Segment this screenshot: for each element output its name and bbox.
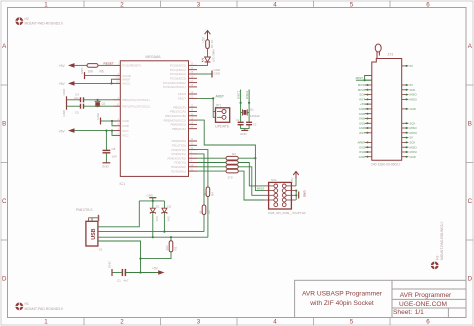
svg-text:MOSI: MOSI [410, 131, 417, 135]
svg-text:MOUNT-PAD-ROUND3.0: MOUNT-PAD-ROUND3.0 [25, 307, 63, 311]
svg-text:5V: 5V [410, 83, 414, 87]
wire caps to gnd [241, 125, 250, 131]
svg-text:5V: 5V [410, 136, 414, 140]
supply +5V arrow (SV1) [290, 172, 299, 186]
svg-text:MOSI: MOSI [410, 98, 417, 102]
svg-text:2: 2 [120, 318, 124, 325]
supply +5V arrow up (LED) [202, 31, 211, 43]
wire USB p1 GND up to zener rail [98, 201, 139, 227]
frame row letters right [468, 43, 473, 283]
svg-text:SCK: SCK [410, 121, 416, 125]
svg-text:PD7(AIN1): PD7(AIN1) [171, 169, 186, 173]
svg-text:OSC2: OSC2 [245, 90, 249, 99]
frame column ticks top [84, 1, 390, 8]
wire PD4 to R3a [197, 157, 226, 159]
svg-text:GND: GND [359, 112, 365, 116]
svg-text:OSC: OSC [359, 145, 365, 149]
svg-text:68: 68 [203, 192, 207, 196]
ZIF left net labels [358, 83, 366, 159]
svg-text:R2: R2 [174, 246, 178, 250]
svg-text:GND: GND [122, 124, 130, 128]
ZIF left pin stubs [365, 76, 372, 157]
capacitor C3 [246, 122, 257, 126]
junction VCC pins [111, 130, 113, 132]
svg-text:C3: C3 [253, 123, 257, 127]
svg-text:4: 4 [273, 318, 277, 325]
svg-text:H3: H3 [436, 256, 440, 260]
crystal Q2 [95, 100, 106, 106]
ground symbol (C1) [108, 261, 113, 277]
svg-text:C5: C5 [75, 111, 79, 115]
junction SV1 gnd [295, 190, 297, 192]
resistor R3d [226, 169, 238, 173]
svg-text:Q2: Q2 [102, 102, 106, 106]
svg-text:6: 6 [426, 318, 430, 325]
svg-text:4u7: 4u7 [124, 279, 129, 283]
svg-text:5V: 5V [410, 64, 414, 68]
svg-text:C1: C1 [117, 279, 121, 283]
svg-text:2K2: 2K2 [165, 245, 169, 251]
svg-text:C4: C4 [75, 93, 79, 97]
wire OSC2 [248, 90, 250, 123]
wire R4 to D+ line [207, 197, 209, 238]
wire ARST to JP1 [213, 98, 215, 117]
svg-text:GND: GND [62, 88, 66, 96]
IC IC1 right pin stubs [189, 65, 198, 171]
wire PD3 to R5 [197, 154, 204, 205]
svg-text:C: C [468, 198, 473, 205]
wire C5 to XTAL2 [84, 105, 114, 107]
zener diode D2 [162, 201, 172, 232]
ZIF right net dots [406, 65, 408, 158]
svg-text:GND: GND [62, 109, 66, 117]
svg-text:2: 2 [120, 2, 124, 9]
ground symbol (IC GND pins) [96, 112, 101, 124]
svg-text:R6: R6 [100, 70, 104, 74]
supply +5V arrow (reset pullup) [59, 63, 75, 68]
wire C1 to gnd [113, 272, 123, 274]
svg-text:VCC: VCC [122, 134, 129, 138]
svg-text:3V6: 3V6 [167, 216, 171, 222]
ground symbol (XTAL1 cap) [62, 88, 67, 103]
ground symbol (XTAL2 cap) [62, 103, 67, 117]
junction ARST [212, 97, 214, 99]
wire OSC1 [240, 90, 242, 123]
svg-text:RST: RST [359, 131, 365, 135]
svg-text:22p: 22p [74, 96, 79, 100]
wire pill2 out to SV1 pin1 [238, 163, 264, 186]
svg-text:5: 5 [350, 2, 354, 9]
mount pad H2 (top left) [16, 17, 63, 26]
junction AREF/AVCC [110, 82, 112, 84]
svg-text:5: 5 [350, 318, 354, 325]
capacitor C4 [74, 93, 84, 103]
svg-text:X1: X1 [99, 248, 103, 252]
svg-text:AVR Programmer: AVR Programmer [400, 292, 452, 299]
svg-text:1: 1 [44, 2, 48, 9]
svg-text:B: B [2, 121, 6, 128]
junction R2 on D+ [170, 236, 172, 238]
capacitor C8 [103, 147, 117, 159]
wire gnd to C5 [67, 105, 81, 107]
svg-text:GND: GND [359, 155, 365, 159]
wire AGND [85, 75, 114, 77]
svg-text:R1 1K: R1 1K [210, 40, 214, 48]
junction VCC to C8 [105, 130, 107, 132]
ZIF socket ZX1 lever [375, 44, 381, 59]
svg-text:GND: GND [122, 119, 130, 123]
ground symbol (right of IC) [212, 68, 221, 78]
svg-text:12MHZ: 12MHZ [250, 114, 260, 118]
resistor R4 [203, 187, 215, 197]
title block [295, 280, 466, 317]
ground symbol (AGND) [80, 67, 85, 79]
svg-text:PGB_SPI_0909__5X2PTH2: PGB_SPI_0909__5X2PTH2 [268, 211, 306, 215]
wire PB3 MOSI to header [197, 120, 255, 158]
svg-text:R4: R4 [211, 192, 215, 196]
svg-text:D: D [468, 276, 473, 283]
svg-text:MISO: MISO [410, 93, 418, 97]
svg-text:D: D [2, 276, 7, 283]
zener gnd rail [139, 200, 164, 202]
zener diode D1 [150, 201, 160, 237]
USB connector X1 [76, 208, 103, 252]
svg-text:ADC7: ADC7 [178, 97, 186, 101]
svg-text:PN61729-S: PN61729-S [76, 208, 92, 212]
svg-text:PC5(ADC5/SCL): PC5(ADC5/SCL) [163, 85, 186, 89]
junction OSC1 [240, 102, 242, 104]
wire pill1 out to SV1 pin2 [238, 158, 264, 190]
svg-text:240-1280-00-0602J: 240-1280-00-0602J [371, 162, 400, 166]
wire USB p3 D+ [98, 236, 208, 238]
svg-text:R3: R3 [232, 152, 236, 156]
wire ADC7 to ARST [197, 97, 213, 99]
+5V rail bottom [125, 272, 159, 274]
svg-text:3: 3 [197, 2, 201, 9]
wire pill4 out to SV1 pin4 [238, 171, 264, 200]
wire PD2 to R4 [197, 150, 208, 187]
ZIF right net labels [410, 64, 418, 159]
svg-text:+5V: +5V [202, 36, 206, 43]
svg-text:C2: C2 [236, 118, 240, 122]
svg-text:PB6(XTAL1/TOSC1): PB6(XTAL1/TOSC1) [122, 98, 149, 102]
svg-text:MOSI: MOSI [358, 83, 365, 87]
resistor R3a [226, 156, 238, 160]
svg-text:SCK: SCK [359, 93, 365, 97]
junction XTAL2-crystal [97, 105, 99, 107]
ground symbol (crystal caps) [240, 130, 248, 135]
capacitor C5 [75, 104, 84, 115]
resistor R5 [199, 205, 211, 215]
wire AVCC [75, 82, 114, 84]
wire LED to PC0 [197, 62, 208, 65]
resistor R1 [206, 40, 214, 49]
junction OSC2 [248, 102, 250, 104]
svg-text:PC6(/RESET): PC6(/RESET) [122, 64, 141, 68]
wire VCC pins [75, 131, 114, 136]
svg-text:H1: H1 [25, 302, 29, 306]
svg-text:+5V: +5V [290, 178, 294, 183]
LED D3 [201, 49, 215, 62]
svg-text:Sheet:: Sheet: [393, 309, 412, 316]
svg-text:ZX1: ZX1 [388, 53, 394, 57]
mount pad H1 (bottom left) [16, 302, 63, 311]
svg-text:OSC1: OSC1 [237, 90, 241, 99]
svg-text:MOUNT-PAD-ROUND3.0: MOUNT-PAD-ROUND3.0 [440, 222, 444, 260]
junction D2 on D- [163, 231, 165, 233]
junction rail-D1 [152, 200, 154, 202]
junction XTAL1-crystal [97, 99, 99, 101]
wire USB p2 D- [98, 231, 204, 233]
jumper JP1 [215, 103, 230, 128]
svg-text:AVCC: AVCC [122, 82, 131, 86]
ZIF left net dots [367, 84, 369, 158]
svg-text:SCK: SCK [410, 141, 416, 145]
wire pill3 out to SV1 pin3 [238, 167, 264, 196]
svg-text:GND: GND [214, 71, 222, 75]
frame row letters left [2, 43, 7, 283]
svg-text:1: 1 [44, 318, 48, 325]
svg-text:+5V: +5V [360, 102, 365, 106]
junction D1 on D+ [152, 236, 154, 238]
svg-text:68: 68 [199, 210, 203, 214]
resistor R2 [165, 237, 177, 252]
wire PC2 to gnd [197, 73, 212, 75]
frame column ticks bottom [84, 318, 390, 326]
svg-text:270: 270 [228, 176, 233, 180]
svg-text:MISO: MISO [410, 145, 418, 149]
svg-text:GND: GND [303, 191, 307, 199]
svg-text:LED 5MM: LED 5MM [212, 49, 216, 62]
wire C8 to gnd [105, 153, 107, 163]
capacitor C1 [117, 269, 129, 283]
svg-text:+5V: +5V [59, 64, 66, 68]
svg-text:3V6: 3V6 [155, 216, 159, 222]
svg-text:+5V: +5V [59, 129, 66, 133]
wire VCC to C8 [105, 131, 107, 150]
svg-text:+5V: +5V [59, 82, 66, 86]
svg-text:AREF: AREF [358, 141, 366, 145]
svg-text:MOUNT-PAD-ROUND3.0: MOUNT-PAD-ROUND3.0 [25, 22, 63, 26]
svg-text:MEGA8A: MEGA8A [146, 55, 162, 59]
svg-text:OSC: OSC [359, 121, 365, 125]
svg-text:SCK: SCK [410, 88, 416, 92]
junction ZIF ARST [364, 79, 366, 81]
wire PD5 to R3b [197, 162, 226, 164]
wire ZIF rows 3-4 ARST [356, 76, 372, 81]
ISP header SV1 [265, 178, 306, 215]
wire R1 to LED [207, 49, 209, 58]
svg-text:D1: D1 [156, 205, 160, 209]
svg-text:Q1: Q1 [250, 108, 254, 112]
svg-text:AVR USBASP Programmer: AVR USBASP Programmer [302, 291, 383, 298]
wire R2 to +5V branch [141, 252, 172, 259]
supply +5V arrow (AVCC) [59, 81, 75, 86]
wire PD6 to R3c [197, 166, 226, 168]
svg-text:ADC6: ADC6 [178, 92, 186, 96]
svg-text:C: C [2, 198, 7, 205]
junction GND pins [111, 120, 113, 122]
svg-text:RESET: RESET [104, 62, 114, 66]
mount pad H3 (right, rotated) [431, 222, 444, 270]
supply +5V arrow right [152, 267, 165, 275]
svg-text:1/1: 1/1 [415, 309, 424, 316]
svg-text:JP1: JP1 [216, 103, 222, 107]
svg-text:R5: R5 [207, 210, 211, 214]
IC IC1 left pin names [122, 64, 149, 138]
svg-text:GND: GND [359, 126, 365, 130]
wire C4 to XTAL1 [84, 99, 114, 101]
wire R5 to D- line [203, 215, 205, 232]
svg-text:SV1: SV1 [271, 178, 277, 182]
svg-text:ARST: ARST [216, 95, 225, 99]
svg-text:MISO: MISO [358, 88, 366, 92]
svg-text:6: 6 [426, 2, 430, 9]
svg-text:MISO: MISO [257, 187, 265, 191]
svg-text:ARST: ARST [356, 76, 364, 80]
ground symbol (C8) [102, 163, 110, 169]
crystal Q1 [241, 108, 260, 119]
wire gnd to C4 [67, 99, 81, 101]
svg-text:with ZIF 40pin Socket: with ZIF 40pin Socket [309, 300, 374, 307]
svg-text:GND: GND [108, 261, 112, 269]
ZIF right pin stubs [402, 66, 409, 157]
svg-text:3: 3 [197, 318, 201, 325]
svg-text:IC1: IC1 [120, 182, 126, 186]
svg-text:GND: GND [410, 155, 416, 159]
svg-text:MOSI: MOSI [410, 150, 417, 154]
ground symbol (zener rail) [147, 194, 157, 201]
title block text left [302, 291, 383, 308]
wire +5V to R6 [75, 64, 88, 66]
wire R6 to PC6 [98, 64, 113, 66]
wire PD7 to R3d [197, 170, 226, 172]
title block text right [393, 292, 452, 316]
svg-text:D2: D2 [167, 205, 171, 209]
ground symbol (SV1) [299, 191, 307, 199]
wire SV1 gnd pins [295, 191, 297, 200]
svg-text:+5V: +5V [152, 267, 159, 271]
IC IC1 MEGA8A body [120, 55, 189, 186]
svg-text:UGE-ONE.COM: UGE-ONE.COM [399, 301, 447, 308]
IC IC1 right pin numbers [191, 63, 194, 172]
supply +5V arrow (VCC pins) [59, 128, 75, 133]
svg-text:GND: GND [96, 112, 100, 120]
svg-text:104: 104 [112, 155, 117, 159]
svg-text:GND: GND [359, 107, 365, 111]
wire GND pins [101, 121, 114, 126]
frame row ticks left [1, 85, 8, 240]
svg-text:MISO: MISO [410, 126, 418, 130]
junction +5V rail [139, 271, 141, 273]
IC IC1 right pin names [163, 64, 186, 174]
svg-text:USB: USB [91, 228, 97, 239]
svg-text:VCC: VCC [122, 129, 129, 133]
svg-text:RST: RST [359, 98, 365, 102]
svg-text:UPDATE: UPDATE [215, 125, 230, 129]
resistor R3b [226, 161, 238, 165]
svg-text:GND: GND [240, 132, 248, 136]
resistor R3c [226, 165, 238, 169]
svg-text:GND: GND [102, 165, 110, 169]
svg-text:GND: GND [147, 194, 155, 198]
junction +5V branch [139, 258, 141, 260]
frame column numbers bottom [44, 318, 430, 325]
capacitor C2 [236, 118, 244, 125]
USB shield to gnd [89, 215, 102, 222]
svg-text:GND: GND [80, 67, 84, 75]
svg-text:OSC: OSC [359, 150, 365, 154]
svg-text:4: 4 [273, 2, 277, 9]
svg-text:B: B [468, 121, 472, 128]
svg-text:PB5(SCK): PB5(SCK) [172, 127, 186, 131]
junction MOSI-pill1 [254, 157, 256, 159]
IC IC1 left pin stubs [113, 65, 120, 135]
IC IC1 left pin numbers [116, 63, 119, 136]
svg-text:PB7(XTAL2/TOSC2): PB7(XTAL2/TOSC2) [122, 104, 149, 108]
svg-text:C8: C8 [112, 147, 116, 151]
svg-text:10K: 10K [88, 70, 95, 74]
svg-text:GND: GND [359, 117, 365, 121]
svg-text:GND: GND [97, 215, 101, 221]
wire AREF join [112, 79, 114, 83]
frame column numbers top [44, 2, 430, 9]
wire USB p4 VBUS down [98, 241, 141, 273]
ZIF socket ZX1 body [371, 53, 402, 167]
svg-text:H2: H2 [25, 17, 29, 21]
resistor R6 [87, 64, 104, 74]
svg-text:GND: GND [410, 107, 416, 111]
frame row ticks right [466, 85, 473, 240]
